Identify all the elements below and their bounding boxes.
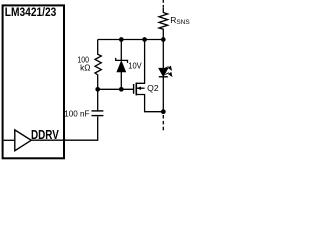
wire DDRV output to capacitor [31, 117, 98, 141]
svg-text:10V: 10V [128, 62, 142, 71]
svg-text:LM3421/23: LM3421/23 [5, 5, 57, 19]
gate bar [133, 84, 135, 94]
resistor R 100 kOhm [95, 40, 101, 90]
svg-text:Q2: Q2 [147, 83, 159, 93]
wire dashed LED return below source node [162, 115, 164, 132]
node junction cap/resistor [95, 87, 100, 92]
wire lower gate rail [98, 88, 134, 90]
wire top rail [98, 39, 164, 41]
wire DDRV input stub [4, 139, 15, 141]
svg-text:100 nF: 100 nF [64, 108, 89, 118]
node junction zener anode [119, 87, 124, 92]
transistor Q2 N-MOSFET [134, 40, 164, 112]
node junction Q2 drain [142, 37, 147, 42]
resistor RSNS [162, 0, 164, 8]
buffer DDRV driver triangle [15, 130, 31, 151]
node junction zener cathode [119, 37, 124, 42]
zener diode D 10V [120, 40, 122, 61]
wire capacitor top to gate rail [97, 89, 99, 111]
body lead with arrow [136, 87, 144, 89]
svg-text:kΩ: kΩ [80, 64, 90, 73]
IC U1 LM3421/23 outline [3, 5, 64, 158]
capacitor C 100 nF [92, 115, 104, 117]
LED emission arrows [165, 66, 172, 76]
node junction Q2 source / LED cathode [161, 109, 166, 114]
source lead [136, 95, 163, 112]
LED D1 (anode lead, triangle, cathode bar, cathode lead) [162, 40, 164, 69]
channel bar [135, 83, 137, 96]
drain lead [136, 40, 144, 84]
node junction RSNS / LED anode [161, 37, 166, 42]
